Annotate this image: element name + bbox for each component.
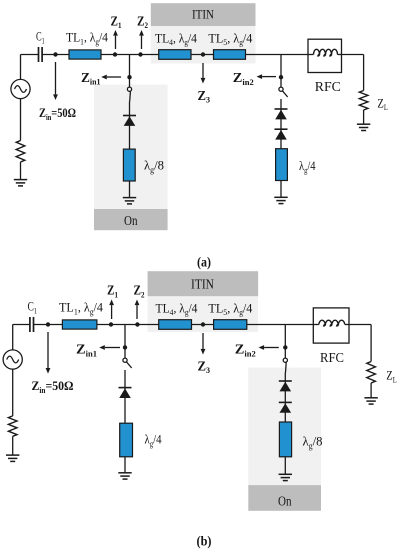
svg-text:λg/4: λg/4 <box>299 158 316 175</box>
svg-text:ITIN: ITIN <box>192 7 215 22</box>
svg-text:λg/8: λg/8 <box>303 434 323 451</box>
svg-text:TL5, λg/4: TL5, λg/4 <box>208 30 252 47</box>
svg-text:RFC: RFC <box>315 79 341 94</box>
svg-text:TL5, λg/4: TL5, λg/4 <box>208 300 252 317</box>
svg-text:On: On <box>124 213 138 228</box>
svg-text:(a): (a) <box>197 255 211 270</box>
svg-text:TL4, λg/4: TL4, λg/4 <box>156 300 198 317</box>
svg-text:λg/4: λg/4 <box>145 432 162 449</box>
svg-text:ITIN: ITIN <box>191 276 214 291</box>
svg-text:TL1, λg/4: TL1, λg/4 <box>59 300 103 317</box>
svg-text:On: On <box>278 494 292 509</box>
svg-text:TL4, λg/4: TL4, λg/4 <box>155 30 197 47</box>
svg-text:(b): (b) <box>197 534 212 549</box>
svg-text:λg/8: λg/8 <box>144 158 164 175</box>
svg-text:TL1, λg/4: TL1, λg/4 <box>66 30 108 47</box>
svg-text:Zin=50Ω: Zin=50Ω <box>32 378 74 395</box>
svg-text:Zin=50Ω: Zin=50Ω <box>39 105 76 122</box>
svg-text:RFC: RFC <box>320 350 344 365</box>
